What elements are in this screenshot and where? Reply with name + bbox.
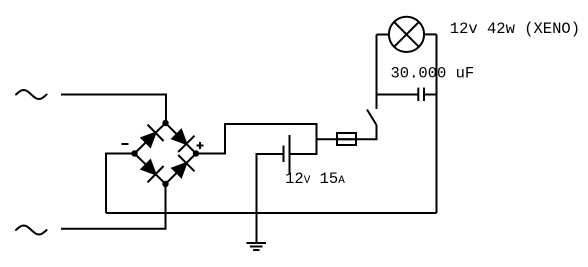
svg-text:12V 15A: 12V 15A [285, 170, 345, 188]
diode D2 top-right (anode top node, cathode right node) [172, 130, 194, 152]
ground symbol [246, 243, 266, 250]
svg-text:12v 42w (XENO): 12v 42w (XENO) [450, 20, 580, 38]
label minus at bridge left [122, 143, 129, 145]
wire bottom bus (negative return) [106, 212, 437, 214]
capacitor C1 left plate [417, 88, 419, 101]
diode D4 bottom-right (anode bottom node, cathode right node) [172, 155, 194, 177]
switch S1 blade (open) [367, 110, 377, 126]
diode D3 bottom-left (anode left node, cathode bottom node) [142, 160, 164, 182]
wire capacitor right to right bus [424, 94, 437, 96]
wire battery box right edge to fuse [317, 138, 338, 140]
wire bridge positive up and over to battery box [196, 124, 317, 154]
battery BT1 negative plate (short) [283, 146, 285, 163]
wire bottom AC to bridge bottom node [61, 184, 166, 229]
node right of bridge (positive) [193, 150, 199, 156]
fuse F1 [337, 133, 356, 145]
wire lamp right to right bus [424, 33, 436, 35]
svg-text:30.000 uF: 30.000 uF [391, 65, 475, 83]
wire bridge negative to bottom bus [106, 154, 135, 214]
wire through fuse to switch bottom [337, 125, 377, 139]
fuse F1 internal wire [337, 138, 356, 140]
AC source top (sine symbol) [16, 90, 47, 99]
lamp L1 (circle with X) [389, 17, 424, 52]
node top of bridge [162, 120, 168, 126]
node bottom of bridge [162, 181, 168, 187]
AC source bottom (sine symbol) [16, 226, 47, 235]
capacitor C1 right plate [423, 88, 425, 101]
wire top AC to bridge [61, 95, 166, 124]
node left of bridge (negative) [131, 150, 137, 156]
wire battery negative to ground tap [257, 154, 284, 243]
switch S1 top terminal / wire up to lamp [376, 35, 378, 110]
wire capacitor branch left [377, 94, 419, 96]
wire bridge diamond frame [135, 123, 197, 184]
wire right bus down to bottom bus [436, 34, 438, 213]
label plus at bridge right [197, 142, 204, 149]
battery BT1 positive plate (long) [289, 135, 291, 174]
wire to lamp left [377, 34, 390, 36]
diode D1 top-left (anode left node, cathode top node) [142, 125, 164, 147]
